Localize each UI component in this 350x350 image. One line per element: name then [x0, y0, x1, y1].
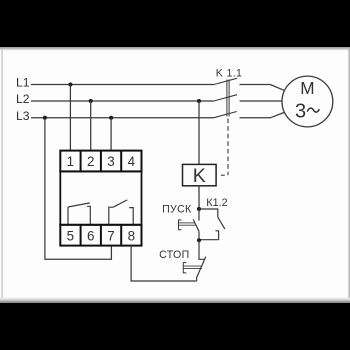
motor M circle: [282, 76, 333, 127]
junction dot L2 / coil K: [197, 99, 201, 103]
svg-text:1: 1: [67, 154, 74, 169]
contactor K1.1 pole 2 arm: [214, 95, 237, 101]
svg-text:K 1.1: K 1.1: [216, 67, 243, 79]
pushbutton STOP actuator: [183, 263, 202, 273]
svg-text:L3: L3: [16, 109, 30, 123]
wire L2 to pin 2: [90, 101, 92, 151]
svg-text:L1: L1: [16, 76, 30, 90]
contactor K1.1 pole 1 arm: [214, 78, 237, 84]
svg-text:6: 6: [87, 228, 94, 243]
wire K1.2 back to node B: [199, 239, 219, 241]
pushbutton PUSK contact: [193, 209, 199, 240]
aux contact K1.2 lower lead: [215, 231, 218, 240]
svg-text:СТОП: СТОП: [159, 249, 189, 261]
svg-text:3: 3: [295, 100, 306, 122]
relay device bottom terminal row: [60, 225, 141, 246]
svg-text:К1.2: К1.2: [206, 197, 227, 209]
node B junction dot: [197, 238, 201, 242]
svg-text:8: 8: [128, 228, 135, 243]
pushbutton STOP contact (NC): [197, 240, 206, 281]
wire pin 8 to stop button: [131, 246, 197, 281]
relay contact 5-6 (closed): [68, 203, 90, 225]
relay device top terminal row: [60, 151, 141, 172]
wire pole 2 to motor: [240, 100, 283, 102]
junction dot L2 / terminal 2: [89, 99, 93, 103]
junction dot L3 / terminal 3: [109, 116, 113, 120]
coil K box: [183, 164, 217, 185]
wire pole 1 to motor: [240, 85, 285, 91]
wire coil K to node A: [198, 186, 200, 209]
wire L3 line: [31, 117, 214, 119]
contactor K1.1 linkage bar: [227, 80, 229, 117]
node A junction dot: [197, 207, 201, 211]
wire L2 line: [31, 100, 214, 102]
svg-text:4: 4: [128, 154, 136, 169]
wire pole 3 to motor: [240, 113, 285, 118]
svg-text:3: 3: [107, 154, 114, 169]
svg-text:5: 5: [67, 228, 74, 243]
wire L1 line: [31, 84, 214, 86]
relay contact 7-8 (open): [109, 200, 133, 225]
contactor K1.1 pole 3 arm: [214, 112, 237, 118]
junction dot L1 / terminal 1: [68, 82, 72, 86]
contactor K1.1 linkage dashed link to coil K: [227, 119, 229, 176]
relay device body: [60, 171, 141, 224]
wire L1 to pin 1: [69, 85, 71, 151]
pushbutton PUSK actuator: [179, 220, 196, 230]
svg-text:M: M: [300, 78, 314, 98]
svg-text:K: K: [193, 165, 206, 187]
svg-text:7: 7: [107, 228, 114, 243]
wire L3 branch to pin 7: [45, 118, 112, 259]
svg-text:L2: L2: [16, 92, 30, 106]
wire L3 to pin 3: [110, 118, 112, 151]
aux contact K1.2 branch wires: [199, 209, 218, 217]
aux contact K1.2 arm: [218, 217, 225, 229]
svg-text:ПУСК: ПУСК: [162, 204, 192, 216]
junction dot L3 left branch: [43, 116, 47, 120]
wire L2 to coil K: [198, 101, 200, 164]
svg-text:2: 2: [87, 154, 94, 169]
